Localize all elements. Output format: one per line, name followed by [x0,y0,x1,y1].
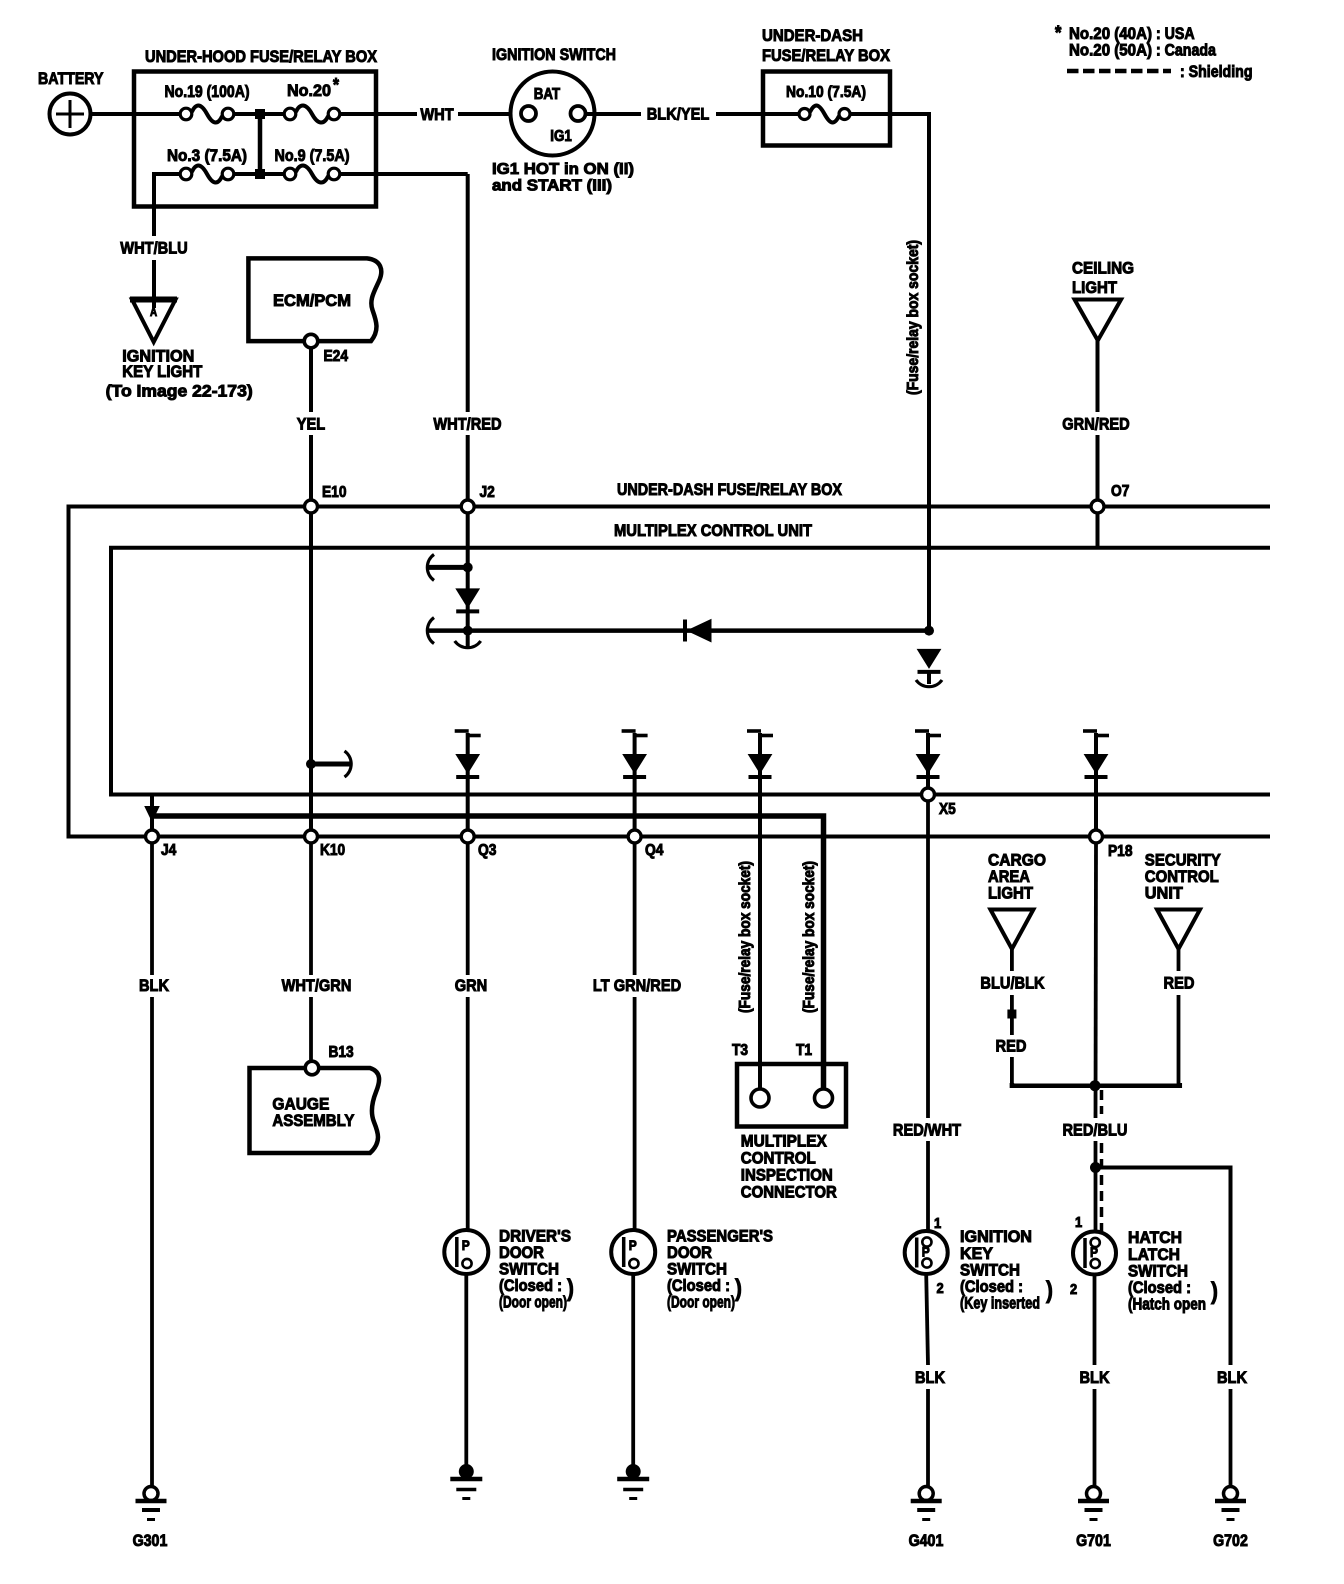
svg-text:(Fuse/relay box socket): (Fuse/relay box socket) [905,240,922,395]
splice (cargo light RED) [1007,1010,1016,1019]
wire to passenger door switch ground [631,1274,635,1465]
wire BLU/BLK from cargo light [1010,948,1014,971]
svg-text:1: 1 [1075,1214,1082,1231]
svg-text:*: * [1055,23,1062,44]
svg-text:K10: K10 [320,842,345,859]
svg-text:and START (III): and START (III) [492,178,612,195]
svg-text:WHT/RED: WHT/RED [433,415,501,434]
ignition switch IG1 terminal [571,106,586,121]
wire RED/WHT from X5 [926,801,930,1118]
svg-text:IG1 HOT in ON (II): IG1 HOT in ON (II) [492,161,634,178]
svg-text:YEL: YEL [297,415,325,434]
svg-text:DRIVER'S: DRIVER'S [499,1228,571,1246]
svg-text:2: 2 [937,1280,944,1297]
svg-text:BLU/BLK: BLU/BLK [980,974,1045,993]
wire branch to G702 [1096,1168,1231,1366]
terminal X5 [922,788,935,801]
svg-text:(Fuse/relay box socket): (Fuse/relay box socket) [801,861,818,1013]
junction between No.19 and No.20 [255,109,265,119]
svg-text:LIGHT: LIGHT [1072,278,1118,297]
svg-text:A: A [150,307,157,319]
fuse No.10 (7.5A) [810,105,839,122]
ignition key switch [905,1231,948,1274]
wire GRN from Q3 [466,843,470,975]
svg-text:P: P [462,1237,470,1253]
ignition switch BAT terminal [521,106,536,121]
svg-text:No.20 (50A): No.20 (50A) [1069,42,1152,60]
svg-text:(Closed :: (Closed : [960,1278,1023,1296]
svg-text:IGNITION SWITCH: IGNITION SWITCH [492,45,616,64]
ECM/PCM box [248,258,381,341]
terminal J2 [461,500,474,513]
svg-text:P: P [922,1244,930,1260]
driver's door switch [444,1230,488,1274]
wire to driver door switch ground [464,1274,468,1465]
socket end below J2 branch [455,641,481,648]
fuse No.9 (7.5A) [296,165,328,182]
svg-text:No.20: No.20 [287,81,331,100]
svg-text:FUSE/RELAY BOX: FUSE/RELAY BOX [762,46,891,65]
wire BLK/YEL to under-dash box [586,112,642,116]
svg-text:E10: E10 [322,484,347,501]
svg-text:(Door open): (Door open) [499,1294,567,1312]
svg-text:P: P [629,1237,637,1253]
svg-text:BLK: BLK [1217,1368,1248,1387]
svg-text:BLK: BLK [139,976,170,995]
svg-text:): ) [1211,1278,1218,1305]
svg-text:BLK/YEL: BLK/YEL [647,105,710,124]
terminal K10 [305,830,318,843]
svg-text:SWITCH: SWITCH [960,1262,1020,1280]
multiplex control inspection connector box [737,1064,846,1127]
fuse No.3 (7.5A) [192,165,222,182]
ignition switch [511,72,595,156]
svg-text:CONTROL: CONTROL [741,1150,816,1168]
svg-text:ASSEMBLY: ASSEMBLY [272,1111,355,1130]
svg-text:CEILING: CEILING [1072,259,1134,278]
under-dash fuse/relay box (top) [763,72,890,146]
svg-text:O7: O7 [1111,483,1129,500]
svg-text:G702: G702 [1213,1532,1248,1550]
wire BLK to G701 [1093,1275,1097,1366]
wire WHT/BLU to connector A [152,260,156,308]
svg-text:No.3 (7.5A): No.3 (7.5A) [167,146,247,165]
svg-text:: Shielding: : Shielding [1180,63,1253,81]
junction row 2 [255,169,265,179]
diode D2 (left pointing) [683,620,687,642]
diode column to P18 [1083,729,1097,733]
svg-text:No.19 (100A): No.19 (100A) [165,82,250,101]
hatch latch switch [1073,1232,1116,1275]
svg-text:IG1: IG1 [550,128,572,145]
svg-text:BAT: BAT [534,86,561,103]
join wire cargo/security to P18 column [1012,1083,1180,1086]
gauge assembly box [250,1068,380,1153]
driver door switch ground [459,1464,474,1479]
wire RED from security control unit [1177,948,1181,971]
junction to G702 branch [1090,1162,1101,1173]
svg-text:No.20 (40A): No.20 (40A) [1069,25,1152,43]
wire to fuse No.10 [763,112,800,116]
ground G401 [919,1487,933,1501]
wire WHT/GRN from K10 to gauge assembly [309,843,313,975]
svg-text:MULTIPLEX: MULTIPLEX [741,1133,827,1151]
diode D1 (J2 branch) [456,589,479,608]
svg-text:RED/BLU: RED/BLU [1063,1121,1128,1140]
wire WHT/RED down to J2 [466,174,470,412]
wire BLK to G401 [926,1274,928,1365]
svg-text:KEY LIGHT: KEY LIGHT [122,362,203,381]
svg-text:RED: RED [1164,974,1195,993]
svg-text:PASSENGER'S: PASSENGER'S [667,1228,773,1246]
svg-text:WHT/BLU: WHT/BLU [120,239,187,258]
socket bar at J2 branch [428,565,468,570]
passenger door switch ground [626,1464,641,1479]
svg-text:HATCH: HATCH [1128,1229,1182,1247]
wire T1 (fuse/relay box socket) [801,861,818,1013]
passenger's door switch [611,1230,655,1274]
svg-text:G401: G401 [909,1532,944,1550]
svg-text:): ) [567,1275,574,1302]
svg-text:LT GRN/RED: LT GRN/RED [593,976,681,995]
svg-text:BATTERY: BATTERY [38,69,104,88]
wire RED/BLU from P18 [1094,843,1098,1118]
branch socket bar on E10-K10 wire [309,560,313,837]
wire battery to under-hood fuse/relay box [91,112,137,116]
svg-text:(Closed :: (Closed : [499,1277,562,1295]
svg-text:WHT: WHT [420,105,454,124]
thick bus wire to T1 [150,795,154,831]
terminal B13 [305,1061,319,1075]
svg-text:LIGHT: LIGHT [988,884,1034,903]
svg-text:(Closed :: (Closed : [667,1277,730,1295]
svg-text:: USA: : USA [1156,25,1195,43]
svg-text:T3: T3 [732,1042,748,1059]
svg-text:(Door open): (Door open) [667,1294,735,1312]
wire fuse box row 1 [134,112,181,116]
svg-text:UNDER-DASH FUSE/RELAY BOX: UNDER-DASH FUSE/RELAY BOX [617,480,843,499]
svg-text:BLK: BLK [915,1368,946,1387]
svg-text:DOOR: DOOR [667,1244,712,1262]
svg-text:G701: G701 [1076,1532,1111,1550]
svg-text:DOOR: DOOR [499,1244,544,1262]
diode D3 (socket column) [918,649,941,668]
junction J2-diode to bus [463,626,473,636]
svg-text:(Fuse/relay box socket): (Fuse/relay box socket) [737,861,754,1013]
diode column to Q4 [622,729,636,733]
svg-text:(Hatch open: (Hatch open [1128,1296,1206,1314]
shielding dashed line [1100,1090,1104,1114]
svg-text:No.10 (7.5A): No.10 (7.5A) [786,84,866,101]
svg-text:RED/WHT: RED/WHT [893,1121,962,1140]
wire T3 (fuse/relay box socket) [737,861,754,1013]
terminal P18 [1090,830,1103,843]
svg-text:Q4: Q4 [645,842,663,859]
svg-text:): ) [1046,1277,1053,1304]
svg-text:GRN/RED: GRN/RED [1062,415,1129,434]
terminal Q4 [628,830,641,843]
junction bus to fuse/relay socket line [924,626,934,636]
svg-text:LATCH: LATCH [1128,1246,1180,1264]
svg-text:J4: J4 [161,842,176,859]
svg-text:GRN: GRN [455,976,488,995]
wire BLK from J4 to G301 [150,843,154,975]
svg-text:X5: X5 [939,801,956,818]
internal bus wire with left diode [428,628,929,633]
wire LT GRN/RED from Q4 [633,843,637,975]
svg-text:MULTIPLEX CONTROL UNIT: MULTIPLEX CONTROL UNIT [614,521,813,540]
svg-text:*: * [333,75,339,95]
wire from under-dash box down (fuse/relay box socket) [890,112,929,116]
wire GRN/RED from ceiling light to O7 [1096,340,1100,412]
fuse No.19 (100A) [192,105,222,122]
svg-text:1: 1 [934,1215,941,1232]
svg-text:(Closed :: (Closed : [1128,1279,1191,1297]
svg-text:: Canada: : Canada [1156,42,1217,60]
svg-text:P18: P18 [1108,843,1133,860]
svg-text:SWITCH: SWITCH [667,1261,727,1279]
diode column to X5 [915,729,929,733]
terminal O7 [1096,506,1100,548]
svg-text:J2: J2 [480,484,495,501]
wire fuse box row 2 [156,172,181,176]
svg-text:2: 2 [1070,1281,1077,1298]
terminal T1 pin [815,1089,833,1107]
svg-text:INSPECTION: INSPECTION [741,1167,833,1185]
svg-text:UNDER-DASH: UNDER-DASH [762,26,863,45]
wire WHT to ignition switch [376,112,417,116]
svg-text:(Key inserted: (Key inserted [960,1295,1040,1313]
ground G701 [1087,1487,1101,1501]
terminal T3 pin [751,1089,769,1107]
diode column to Q3 [455,729,469,733]
wire junction row1 to row2 [258,114,263,174]
svg-text:): ) [735,1275,742,1302]
terminal Q3 [461,830,474,843]
svg-text:Q3: Q3 [478,842,496,859]
battery [50,94,91,135]
svg-text:IGNITION: IGNITION [960,1228,1032,1246]
fuse No.20 [296,105,328,122]
svg-text:SWITCH: SWITCH [499,1261,559,1279]
svg-text:BLK: BLK [1080,1368,1111,1387]
svg-text:KEY: KEY [960,1245,993,1263]
svg-text:WHT/GRN: WHT/GRN [282,976,352,995]
svg-text:(To Image 22-173): (To Image 22-173) [106,382,253,401]
svg-text:No.9 (7.5A): No.9 (7.5A) [275,146,350,165]
terminal J4 [146,830,159,843]
junction at P18 column join [1090,1080,1101,1091]
svg-text:E24: E24 [324,348,349,365]
under-hood fuse/relay box [134,72,376,207]
svg-text:UNDER-HOOD FUSE/RELAY BOX: UNDER-HOOD FUSE/RELAY BOX [145,47,378,66]
svg-text:RED: RED [996,1037,1027,1056]
svg-text:UNIT: UNIT [1145,884,1184,903]
terminal E10 [309,502,313,560]
svg-text:T1: T1 [796,1042,812,1059]
diode column to T3 connector [747,729,761,733]
terminal E24 [304,334,318,348]
ground G301 [144,1487,158,1501]
svg-text:ECM/PCM: ECM/PCM [273,291,351,310]
socket end of column [916,680,942,687]
svg-text:G301: G301 [133,1532,168,1550]
svg-text:P: P [1090,1244,1098,1260]
connector A triangle (to ignition key light) [130,297,177,303]
svg-text:SWITCH: SWITCH [1128,1263,1188,1281]
legend shielding dashed line [1067,69,1171,74]
ground G702 [1224,1487,1238,1501]
svg-text:B13: B13 [329,1044,354,1061]
wire YEL from E24 to E10 [309,348,313,412]
wire No.3 to WHT/BLU branch [154,174,181,236]
svg-text:CONNECTOR: CONNECTOR [741,1184,837,1202]
